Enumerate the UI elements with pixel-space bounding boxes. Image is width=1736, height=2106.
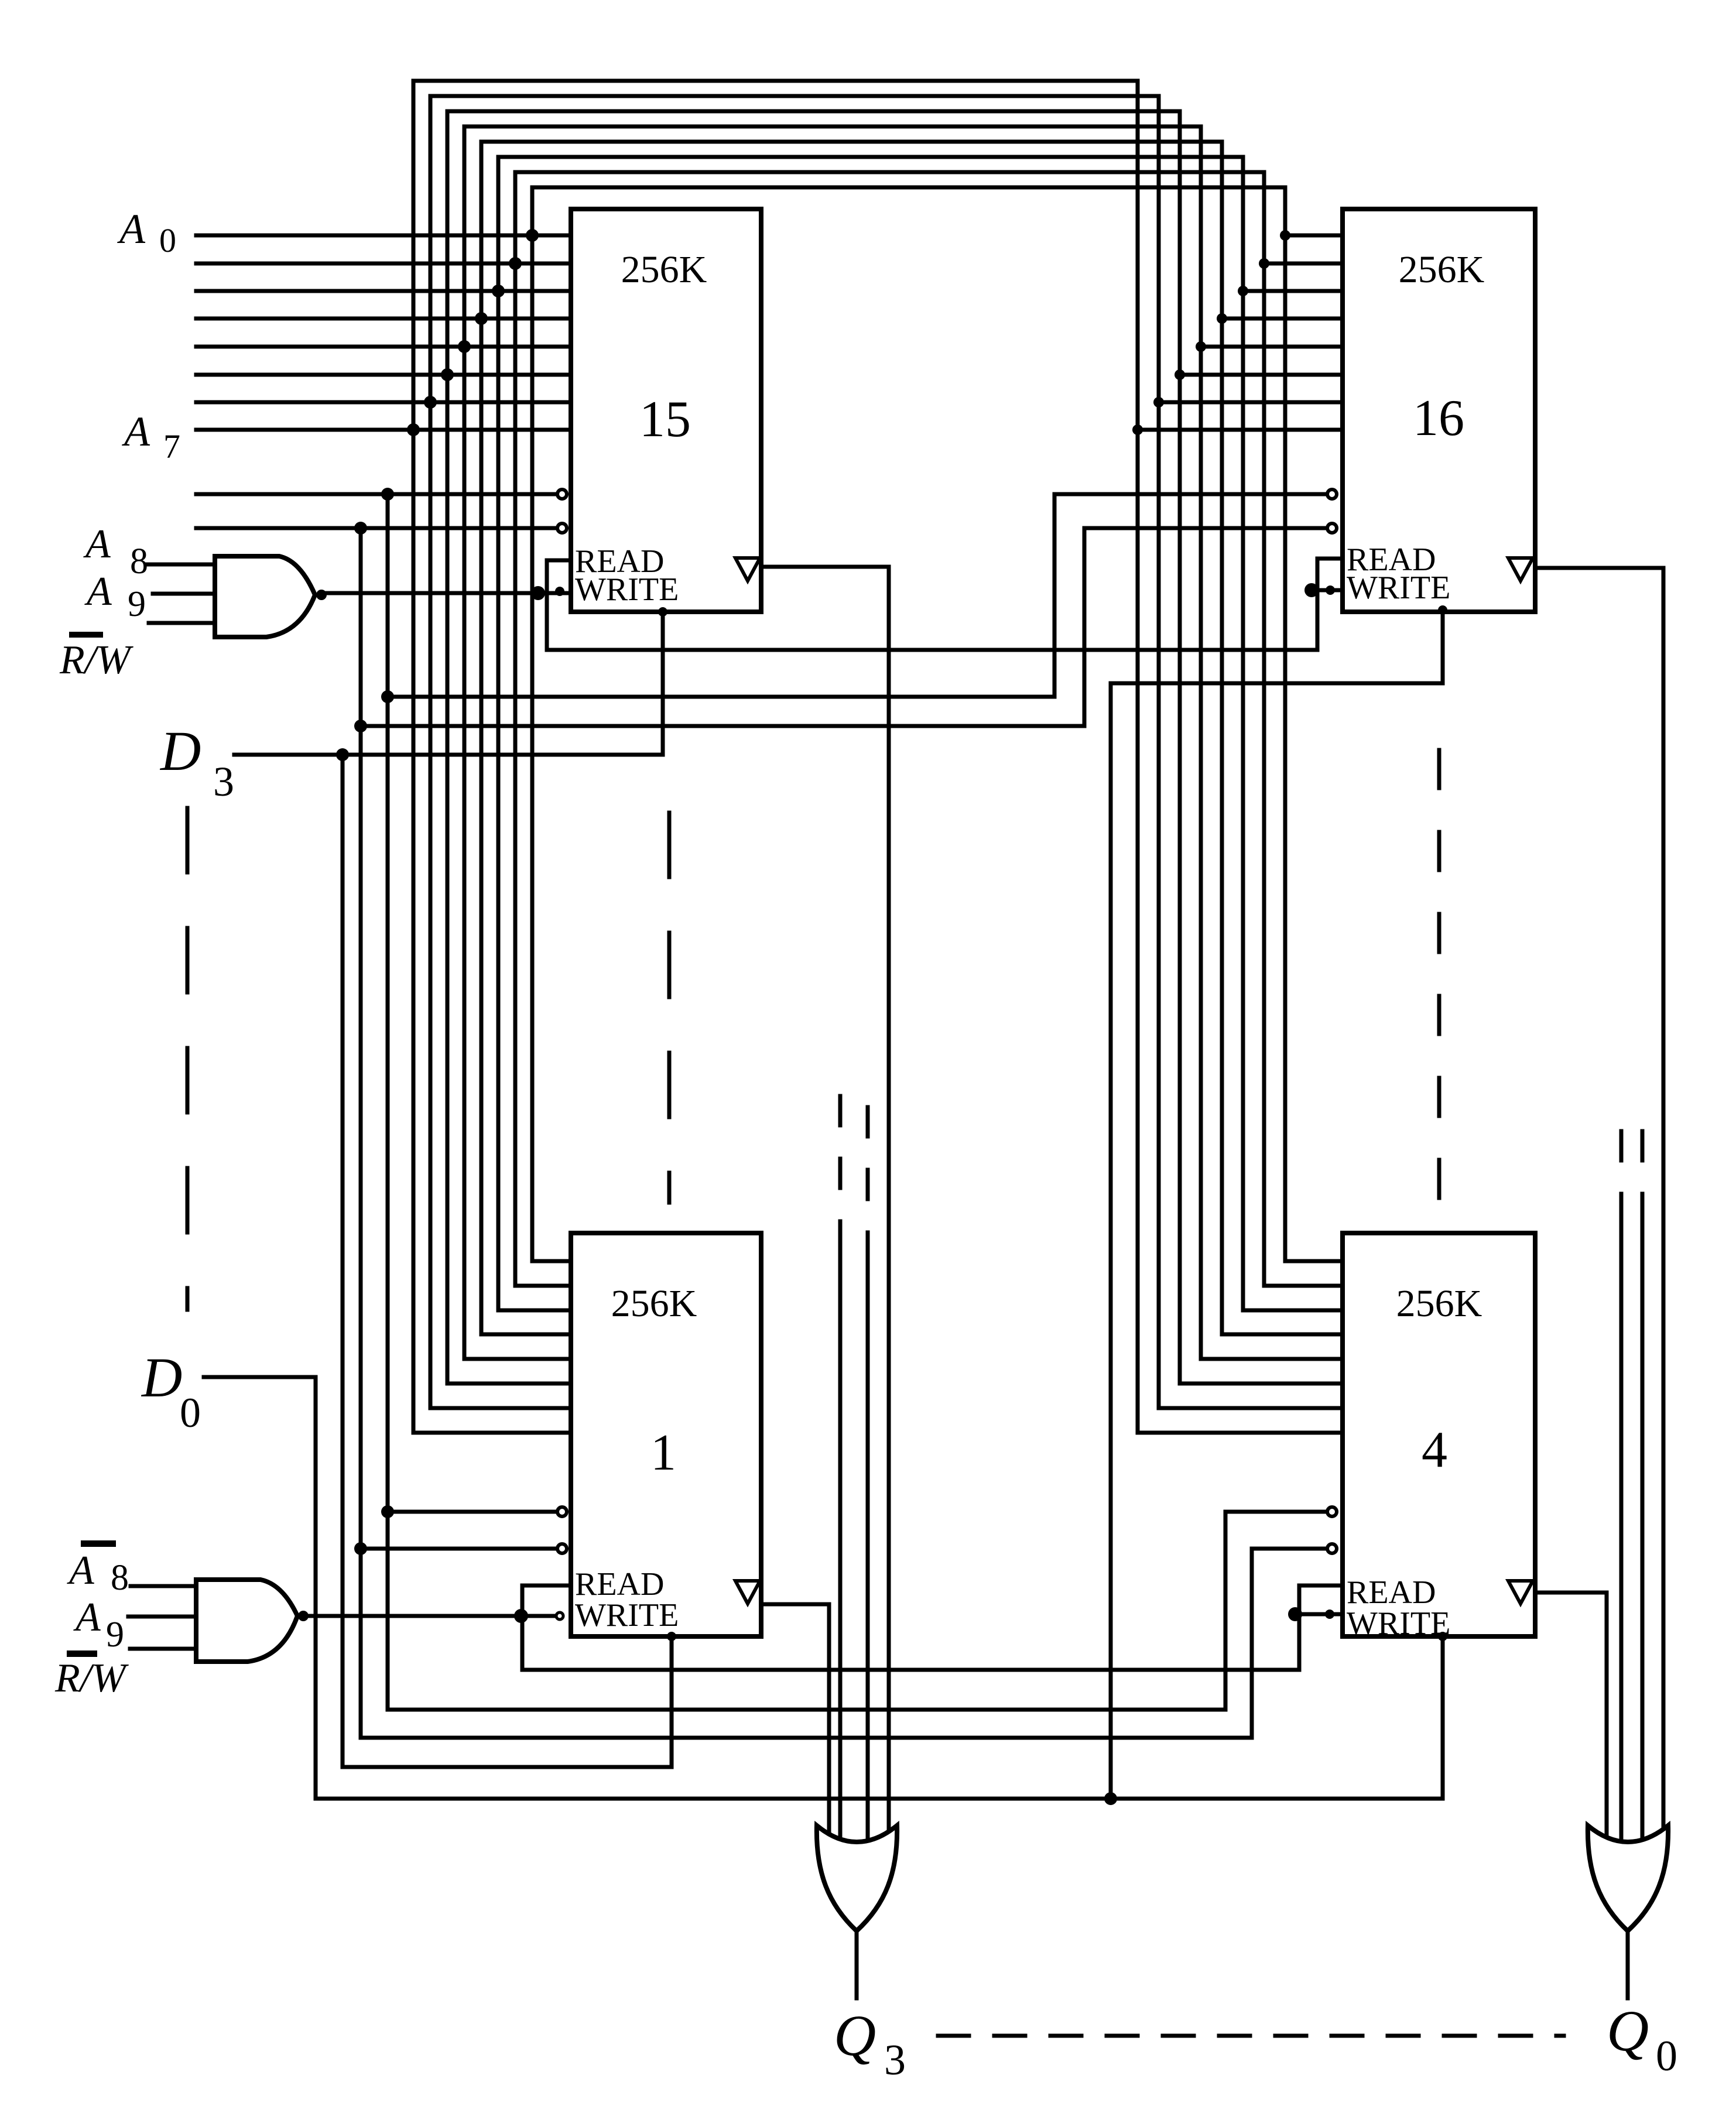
svg-text:3: 3 <box>213 758 234 805</box>
svg-text:8: 8 <box>111 1558 129 1598</box>
svg-text:15: 15 <box>639 391 691 448</box>
svg-text:WRITE: WRITE <box>575 571 679 608</box>
svg-text:0: 0 <box>159 221 176 259</box>
svg-text:7: 7 <box>163 427 180 465</box>
svg-text:D: D <box>141 1346 182 1409</box>
svg-text:256K: 256K <box>1399 248 1485 291</box>
svg-text:WRITE: WRITE <box>1347 570 1450 606</box>
svg-text:A: A <box>117 206 146 252</box>
svg-text:256K: 256K <box>611 1282 697 1325</box>
svg-text:0: 0 <box>180 1389 201 1436</box>
svg-text:A: A <box>73 1595 101 1640</box>
svg-text:9: 9 <box>128 584 146 624</box>
svg-text:WRITE: WRITE <box>575 1597 679 1634</box>
svg-text:9: 9 <box>106 1615 124 1655</box>
svg-text:256K: 256K <box>621 248 707 291</box>
svg-text:D: D <box>159 720 201 782</box>
svg-text:A: A <box>83 522 111 567</box>
svg-text:R/W: R/W <box>54 1656 129 1701</box>
svg-text:4: 4 <box>1422 1422 1447 1478</box>
svg-text:16: 16 <box>1413 390 1464 447</box>
svg-text:A: A <box>122 408 150 455</box>
svg-text:1: 1 <box>650 1424 676 1481</box>
svg-text:0: 0 <box>1656 2032 1677 2080</box>
svg-text:A: A <box>84 569 112 614</box>
svg-text:WRITE: WRITE <box>1347 1605 1450 1642</box>
svg-text:R/W: R/W <box>59 638 133 683</box>
svg-text:Q: Q <box>834 2003 876 2068</box>
svg-text:3: 3 <box>884 2036 906 2084</box>
svg-text:256K: 256K <box>1396 1282 1482 1325</box>
svg-text:8: 8 <box>130 542 148 581</box>
svg-text:A: A <box>67 1548 94 1593</box>
svg-text:Q: Q <box>1607 1998 1649 2063</box>
